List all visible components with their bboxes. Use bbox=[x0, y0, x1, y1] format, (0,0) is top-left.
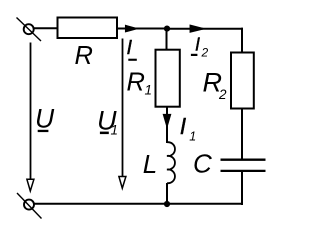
resistor R2 bbox=[231, 53, 254, 109]
wire R2 to capacitor C bbox=[241, 109, 243, 160]
underline of label U bbox=[38, 130, 49, 132]
wire R1 to inductor L bbox=[166, 107, 168, 143]
svg-text:C: C bbox=[193, 148, 212, 178]
voltage arrow U (open head) bbox=[27, 179, 34, 191]
node A (top junction) bbox=[164, 26, 170, 32]
voltage arrow U1 (line) bbox=[122, 39, 124, 177]
svg-text:1: 1 bbox=[111, 123, 119, 138]
bottom wire (node B rail) bbox=[34, 203, 243, 205]
underline of label I2 bbox=[191, 54, 198, 56]
terminal X2 (bottom-left input) bbox=[17, 193, 42, 219]
wire terminal X1 to resistor R bbox=[33, 27, 57, 29]
current arrow I bbox=[126, 26, 137, 32]
current arrow I1 bbox=[163, 115, 170, 127]
current arrow I2 bbox=[190, 25, 204, 32]
voltage arrow U1 (open head) bbox=[119, 177, 126, 189]
svg-text:I: I bbox=[127, 37, 133, 59]
wire inductor L to node B bbox=[166, 183, 168, 204]
svg-text:L: L bbox=[143, 149, 157, 179]
svg-text:R: R bbox=[127, 69, 145, 97]
inductor L bbox=[167, 142, 175, 183]
voltage arrow U (line) bbox=[30, 43, 32, 180]
capacitor C top plate bbox=[221, 159, 266, 161]
wire resistor R to node A bbox=[117, 28, 167, 30]
node B (bottom junction) bbox=[164, 201, 170, 207]
svg-text:U: U bbox=[35, 104, 55, 134]
capacitor C bottom plate bbox=[221, 170, 266, 172]
wire node A down to R1 bbox=[166, 29, 168, 50]
terminal X1 (top-left input) bbox=[17, 18, 42, 42]
underline of label U1 bbox=[100, 132, 109, 135]
wire top-right corner down to R2 bbox=[241, 28, 243, 53]
wire capacitor C to bottom-right corner bbox=[241, 172, 243, 206]
resistor R bbox=[58, 18, 118, 39]
resistor R1 bbox=[156, 50, 180, 107]
svg-text:R: R bbox=[75, 42, 93, 70]
svg-text:2: 2 bbox=[218, 87, 227, 102]
svg-text:I1: I1 bbox=[180, 113, 196, 144]
wire node A to top-right corner bbox=[167, 28, 243, 30]
underline of label I bbox=[128, 59, 137, 61]
svg-text:1: 1 bbox=[145, 83, 153, 98]
